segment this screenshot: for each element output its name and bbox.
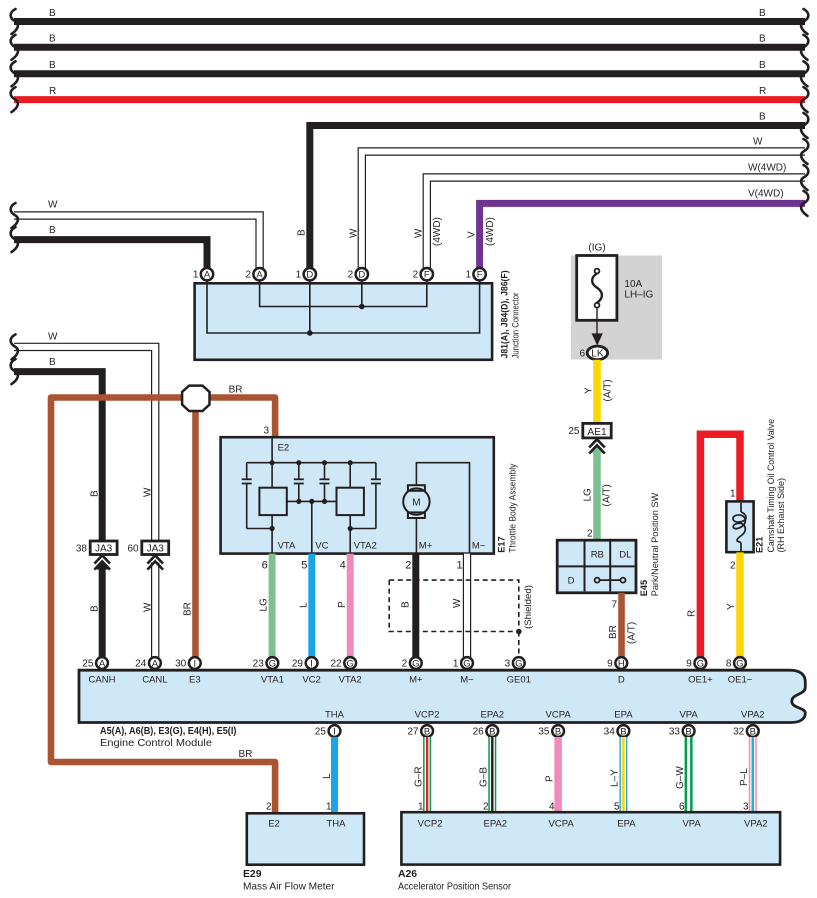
junction internal D2 drop bbox=[361, 279, 363, 307]
terminal 24 A ECM (CANL) bbox=[149, 657, 161, 669]
break symbol left B bbox=[11, 227, 18, 252]
junction node on upper bus bbox=[359, 304, 365, 310]
break symbol left R4 bbox=[11, 87, 18, 112]
svg-text:W: W bbox=[753, 137, 763, 148]
svg-text:B: B bbox=[489, 726, 495, 737]
svg-text:B: B bbox=[49, 60, 56, 71]
svg-text:JA3: JA3 bbox=[95, 543, 113, 554]
svg-text:E3: E3 bbox=[189, 674, 201, 685]
svg-text:V: V bbox=[467, 231, 478, 238]
wire L VC2 bbox=[308, 554, 315, 657]
svg-text:W: W bbox=[48, 332, 58, 343]
svg-text:8: 8 bbox=[726, 658, 732, 669]
svg-text:25: 25 bbox=[315, 726, 327, 737]
throttle sensor element 1 bbox=[259, 488, 286, 515]
svg-text:1: 1 bbox=[730, 489, 736, 500]
terminal 2 A junction connector bbox=[253, 268, 265, 280]
svg-text:I: I bbox=[310, 658, 313, 669]
terminal 9 G ECM (OE1+) bbox=[695, 657, 707, 669]
svg-text:G: G bbox=[515, 658, 522, 669]
svg-text:2: 2 bbox=[348, 270, 354, 281]
wire BR run to throttle body pin 3 bbox=[205, 398, 275, 438]
throttle bottom-left rail bbox=[247, 528, 272, 530]
svg-text:R: R bbox=[687, 610, 698, 617]
terminal 33 B ECM (VPA) bbox=[683, 725, 695, 737]
accelerator position sensor box A26 bbox=[401, 812, 780, 864]
wire shield drain dashed bbox=[518, 632, 520, 657]
svg-text:RB: RB bbox=[591, 549, 604, 560]
break symbol left B2 bbox=[11, 35, 18, 60]
svg-text:W: W bbox=[48, 200, 58, 211]
svg-text:B: B bbox=[49, 357, 56, 368]
terminal 25 I ECM (THA) bbox=[329, 725, 341, 737]
switch contact symbol bbox=[599, 579, 621, 581]
break symbol left W bbox=[11, 334, 18, 359]
svg-text:B: B bbox=[685, 726, 691, 737]
capacitor C3 bbox=[324, 463, 326, 479]
junction octagon connector bbox=[182, 386, 209, 411]
svg-text:A: A bbox=[152, 658, 159, 669]
mass air flow meter box E29 bbox=[247, 813, 364, 864]
svg-text:(Shielded): (Shielded) bbox=[523, 585, 534, 629]
svg-text:VTA2: VTA2 bbox=[339, 674, 362, 685]
svg-text:L: L bbox=[322, 773, 333, 779]
capacitor C4 bbox=[375, 463, 377, 479]
svg-text:B: B bbox=[49, 225, 56, 236]
svg-text:25: 25 bbox=[82, 658, 94, 669]
svg-text:CANH: CANH bbox=[89, 674, 116, 685]
svg-text:VCPA: VCPA bbox=[546, 710, 572, 721]
throttle bottom-right rail bbox=[350, 528, 376, 530]
wire R OE1+ to valve bbox=[700, 434, 740, 657]
svg-text:1: 1 bbox=[465, 270, 471, 281]
svg-text:27: 27 bbox=[407, 726, 419, 737]
svg-text:DL: DL bbox=[619, 549, 631, 560]
svg-text:B: B bbox=[750, 726, 756, 737]
chevron under 60 JA3 bbox=[147, 555, 163, 563]
svg-text:2: 2 bbox=[245, 270, 251, 281]
arrowhead to terminal LK bbox=[592, 333, 603, 345]
svg-text:EPA2: EPA2 bbox=[484, 819, 508, 830]
break symbol left B3 bbox=[11, 61, 18, 86]
svg-text:G–R: G–R bbox=[414, 766, 425, 787]
svg-text:D: D bbox=[618, 674, 625, 685]
break symbol left W bbox=[11, 203, 18, 228]
svg-text:VPA: VPA bbox=[682, 819, 701, 830]
svg-text:E2: E2 bbox=[278, 443, 290, 454]
svg-text:I: I bbox=[333, 726, 336, 737]
svg-text:2: 2 bbox=[402, 658, 408, 669]
svg-text:1: 1 bbox=[418, 802, 424, 813]
throttle sensor element 2 bbox=[337, 488, 364, 515]
svg-text:E45: E45 bbox=[639, 580, 649, 596]
svg-text:G–W: G–W bbox=[675, 766, 686, 789]
svg-text:2: 2 bbox=[405, 560, 411, 572]
svg-text:1: 1 bbox=[296, 270, 302, 281]
terminal 1 A junction connector bbox=[201, 268, 213, 280]
svg-text:7: 7 bbox=[611, 600, 617, 611]
svg-text:2: 2 bbox=[266, 802, 272, 813]
terminal 8 G ECM (OE1&#8722;) bbox=[734, 657, 746, 669]
svg-text:EPA: EPA bbox=[617, 819, 636, 830]
svg-text:W: W bbox=[452, 598, 463, 608]
terminal 32 B ECM (VPA2) bbox=[747, 725, 759, 737]
terminal 1 D junction connector bbox=[304, 268, 316, 280]
junction node VTA2 bbox=[348, 526, 353, 531]
terminal 1 F junction connector bbox=[473, 268, 485, 280]
svg-text:6: 6 bbox=[262, 560, 268, 572]
svg-text:6: 6 bbox=[579, 348, 585, 359]
svg-text:24: 24 bbox=[135, 658, 147, 669]
svg-text:22: 22 bbox=[330, 658, 342, 669]
junction node top rail bbox=[348, 460, 353, 465]
junction node top rail bbox=[322, 460, 327, 465]
svg-text:M+: M+ bbox=[419, 540, 433, 551]
svg-text:P–L: P–L bbox=[739, 768, 750, 786]
svg-text:G: G bbox=[347, 658, 354, 669]
svg-text:B: B bbox=[555, 726, 561, 737]
svg-text:VC: VC bbox=[315, 540, 328, 551]
wire G-R VCP2 bbox=[423, 737, 431, 813]
throttle middle rail bbox=[287, 500, 337, 502]
junction connector J81/J84/J86 box bbox=[195, 283, 493, 360]
wire bus R4 horizontal bbox=[14, 96, 805, 103]
wire G-W VPA bbox=[685, 737, 693, 813]
svg-text:B: B bbox=[90, 490, 101, 497]
break symbol right W(4WD) bbox=[801, 165, 808, 190]
svg-text:B: B bbox=[90, 605, 101, 612]
wire fuse output bbox=[596, 308, 598, 334]
svg-text:D: D bbox=[358, 270, 365, 281]
svg-text:B: B bbox=[49, 8, 56, 19]
break symbol right B2 bbox=[801, 35, 808, 60]
svg-text:34: 34 bbox=[604, 726, 616, 737]
valve coil bbox=[740, 503, 742, 512]
svg-text:(4WD): (4WD) bbox=[485, 217, 496, 246]
svg-text:B: B bbox=[424, 726, 430, 737]
svg-text:Accelerator Position Sensor: Accelerator Position Sensor bbox=[398, 881, 511, 892]
svg-text:R: R bbox=[759, 86, 766, 97]
svg-text:L: L bbox=[299, 602, 310, 608]
svg-text:G: G bbox=[412, 658, 419, 669]
svg-text:B: B bbox=[759, 60, 766, 71]
wire motor minus internal bbox=[416, 463, 469, 553]
svg-text:10A: 10A bbox=[624, 279, 642, 290]
svg-text:3: 3 bbox=[263, 426, 269, 437]
svg-text:E17: E17 bbox=[497, 536, 507, 552]
svg-text:THA: THA bbox=[327, 819, 347, 830]
wire P-L VPA2 bbox=[749, 737, 757, 813]
break symbol right R4 bbox=[801, 87, 808, 112]
svg-text:B: B bbox=[759, 8, 766, 19]
svg-text:LG: LG bbox=[583, 488, 594, 502]
svg-text:P: P bbox=[337, 601, 348, 608]
svg-text:1: 1 bbox=[326, 802, 332, 813]
wire bus B2 horizontal bbox=[14, 44, 805, 51]
svg-text:VC2: VC2 bbox=[302, 674, 320, 685]
svg-text:25: 25 bbox=[568, 426, 580, 437]
svg-text:1: 1 bbox=[456, 560, 462, 572]
svg-text:LK: LK bbox=[591, 349, 604, 360]
svg-text:VTA2: VTA2 bbox=[354, 540, 377, 551]
svg-text:VTA1: VTA1 bbox=[261, 674, 284, 685]
svg-text:5: 5 bbox=[614, 802, 620, 813]
switch grid lines bbox=[584, 542, 586, 592]
svg-text:Camshaft Timing Oil Control Va: Camshaft Timing Oil Control Valve bbox=[766, 419, 776, 553]
svg-text:38: 38 bbox=[76, 544, 88, 555]
terminal 29 I ECM (VC2) bbox=[306, 657, 318, 669]
svg-text:M−: M− bbox=[472, 540, 486, 551]
svg-text:OE1−: OE1− bbox=[728, 674, 753, 685]
junction internal upper bus bbox=[260, 279, 427, 307]
svg-text:2: 2 bbox=[730, 561, 736, 572]
break symbol left B1 bbox=[11, 9, 18, 34]
svg-text:(A/T): (A/T) bbox=[602, 484, 613, 506]
wire L THA bbox=[331, 737, 338, 814]
terminal 3 G ECM (GE01) bbox=[513, 657, 525, 669]
svg-text:26: 26 bbox=[473, 726, 485, 737]
terminal 22 G ECM (VTA2) bbox=[344, 657, 356, 669]
fuse 10A LH-IG box bbox=[577, 256, 617, 321]
chevron under 38 JA3 bbox=[94, 555, 110, 563]
svg-text:BR: BR bbox=[183, 602, 194, 616]
svg-text:G: G bbox=[697, 658, 704, 669]
svg-text:30: 30 bbox=[175, 658, 187, 669]
svg-text:9: 9 bbox=[686, 658, 692, 669]
terminal 35 B ECM (VCPA) bbox=[552, 725, 564, 737]
wire B to junction A1 bbox=[14, 240, 207, 268]
wire P VTA2 bbox=[347, 554, 354, 657]
svg-text:F: F bbox=[424, 270, 430, 281]
wire W M- bbox=[463, 554, 471, 657]
svg-text:Junction Connector: Junction Connector bbox=[511, 292, 521, 358]
shield box dashed bbox=[389, 580, 519, 631]
wire bus B3 horizontal bbox=[14, 70, 805, 77]
svg-text:3: 3 bbox=[743, 802, 749, 813]
wire B CANH lower bbox=[99, 567, 106, 658]
svg-text:D: D bbox=[568, 576, 575, 587]
svg-text:60: 60 bbox=[127, 544, 139, 555]
fuse block gray panel bbox=[571, 256, 662, 360]
junction node top rail bbox=[270, 460, 275, 465]
wire BR main run left bbox=[51, 398, 275, 814]
svg-text:(IG): (IG) bbox=[588, 243, 605, 254]
svg-text:H: H bbox=[618, 658, 625, 669]
junction node middle rail bbox=[322, 499, 327, 504]
terminal 25 A ECM (CANH) bbox=[96, 657, 108, 669]
terminal 1 G ECM (M&#8722;) bbox=[461, 657, 473, 669]
terminal 34 B ECM (EPA) bbox=[618, 725, 630, 737]
svg-text:E29: E29 bbox=[243, 869, 262, 880]
connector 38 JA3 box bbox=[90, 541, 117, 555]
wire B to junction D1 bbox=[310, 126, 805, 269]
svg-text:(RH Exhaust Side): (RH Exhaust Side) bbox=[776, 478, 786, 553]
svg-text:29: 29 bbox=[292, 658, 304, 669]
svg-text:BR: BR bbox=[608, 625, 619, 639]
svg-text:W: W bbox=[349, 228, 360, 238]
svg-text:23: 23 bbox=[253, 658, 265, 669]
junction internal D1 drop bbox=[309, 279, 311, 333]
wire G-B EPA2 bbox=[488, 737, 496, 813]
svg-text:AE1: AE1 bbox=[587, 427, 607, 438]
wire VC internal bbox=[311, 501, 313, 553]
svg-text:Y: Y bbox=[584, 387, 595, 394]
svg-text:CANL: CANL bbox=[142, 674, 167, 685]
fuse element bbox=[592, 273, 602, 302]
svg-text:J81(A), J84(D), J86(F): J81(A), J84(D), J86(F) bbox=[500, 270, 510, 358]
svg-text:F: F bbox=[477, 270, 483, 281]
svg-text:W: W bbox=[143, 487, 154, 497]
svg-text:P: P bbox=[545, 775, 556, 782]
wire motor plus internal bbox=[415, 518, 417, 553]
break symbol right W bbox=[801, 139, 808, 164]
svg-text:2: 2 bbox=[413, 270, 419, 281]
chevron under AE1 bbox=[589, 439, 605, 447]
terminal 30 I ECM (E3) bbox=[189, 657, 201, 669]
svg-text:W(4WD): W(4WD) bbox=[748, 163, 786, 174]
break symbol right B1 bbox=[801, 9, 808, 34]
throttle body assembly box bbox=[221, 437, 494, 553]
svg-text:VCPA: VCPA bbox=[549, 819, 575, 830]
svg-text:W: W bbox=[143, 602, 154, 612]
svg-text:3: 3 bbox=[505, 658, 511, 669]
break symbol right B3 bbox=[801, 61, 808, 86]
break symbol left B bbox=[11, 359, 18, 384]
svg-text:BR: BR bbox=[229, 385, 243, 396]
svg-text:R: R bbox=[49, 86, 56, 97]
break symbol right V(4WD) bbox=[801, 191, 808, 216]
capacitor C2 bbox=[298, 463, 300, 479]
svg-text:A: A bbox=[256, 270, 263, 281]
svg-text:G: G bbox=[736, 658, 743, 669]
terminal 2 G ECM (M+) bbox=[410, 657, 422, 669]
svg-text:D: D bbox=[306, 270, 313, 281]
svg-text:GE01: GE01 bbox=[507, 674, 531, 685]
svg-text:M−: M− bbox=[460, 674, 474, 685]
svg-text:VPA: VPA bbox=[679, 710, 698, 721]
motor M throttle bbox=[408, 485, 425, 491]
svg-text:VCP2: VCP2 bbox=[415, 710, 440, 721]
svg-text:W: W bbox=[414, 228, 425, 238]
terminal 27 B ECM (VCP2) bbox=[421, 725, 433, 737]
svg-text:G: G bbox=[269, 658, 276, 669]
svg-text:B: B bbox=[759, 112, 766, 123]
svg-text:32: 32 bbox=[733, 726, 745, 737]
svg-text:EPA2: EPA2 bbox=[481, 710, 505, 721]
wire W CANL upper bbox=[14, 347, 155, 542]
svg-text:35: 35 bbox=[538, 726, 550, 737]
terminal 9 H ECM (D) bbox=[615, 657, 627, 669]
wire BR drop to ECM E3 bbox=[192, 410, 199, 657]
terminal 26 B ECM (EPA2) bbox=[486, 725, 498, 737]
svg-text:Y: Y bbox=[726, 603, 737, 610]
svg-text:E2: E2 bbox=[268, 819, 280, 830]
svg-text:A: A bbox=[204, 270, 211, 281]
svg-text:L–Y: L–Y bbox=[610, 769, 621, 787]
svg-text:B: B bbox=[401, 601, 412, 608]
park/neutral position switch box bbox=[557, 540, 636, 593]
junction node middle rail bbox=[309, 499, 314, 504]
svg-text:(A/T): (A/T) bbox=[627, 622, 638, 644]
break symbol right B bbox=[801, 113, 808, 138]
terminal 2 F junction connector bbox=[421, 268, 433, 280]
junction node middle rail bbox=[296, 499, 301, 504]
wire B M+ bbox=[412, 554, 419, 657]
svg-text:5: 5 bbox=[301, 560, 307, 572]
svg-text:VCP2: VCP2 bbox=[418, 819, 443, 830]
svg-text:VPA2: VPA2 bbox=[741, 710, 765, 721]
wire W(4WD) to junction F2 bbox=[427, 178, 805, 269]
svg-text:Engine Control Module: Engine Control Module bbox=[100, 738, 212, 749]
svg-text:1: 1 bbox=[193, 270, 199, 281]
junction internal lower bus bbox=[207, 279, 480, 333]
junction node on lower bus bbox=[307, 330, 313, 336]
svg-text:B: B bbox=[620, 726, 626, 737]
wire BR (A/T) to ECM D bbox=[618, 593, 625, 657]
svg-text:OE1+: OE1+ bbox=[688, 674, 713, 685]
svg-text:9: 9 bbox=[607, 658, 613, 669]
oil control valve box E21 bbox=[726, 501, 753, 552]
svg-text:VPA2: VPA2 bbox=[744, 819, 768, 830]
svg-text:2: 2 bbox=[587, 529, 593, 540]
junction node top rail bbox=[296, 460, 301, 465]
wire L-Y EPA bbox=[619, 737, 627, 813]
svg-text:B: B bbox=[759, 34, 766, 45]
svg-text:1: 1 bbox=[453, 658, 459, 669]
wire Y valve to OE1- bbox=[736, 552, 744, 657]
svg-text:V(4WD): V(4WD) bbox=[748, 188, 784, 199]
throttle internal entry lead bbox=[271, 438, 273, 463]
wire W CANL lower bbox=[151, 563, 159, 658]
svg-text:G–B: G–B bbox=[479, 767, 490, 787]
node shield drain bbox=[516, 629, 522, 635]
svg-text:EPA: EPA bbox=[614, 710, 633, 721]
wire B CANH upper bbox=[14, 372, 102, 542]
svg-text:33: 33 bbox=[669, 726, 681, 737]
svg-text:B: B bbox=[297, 229, 308, 236]
svg-text:Park/Neutral Position SW: Park/Neutral Position SW bbox=[650, 493, 660, 597]
wire bus B1 horizontal bbox=[14, 18, 805, 25]
svg-text:Mass Air Flow Meter: Mass Air Flow Meter bbox=[243, 881, 335, 892]
svg-text:E21: E21 bbox=[755, 537, 765, 553]
svg-text:LH–IG: LH–IG bbox=[624, 290, 653, 301]
svg-text:B: B bbox=[49, 34, 56, 45]
svg-text:A: A bbox=[99, 658, 106, 669]
connector 25 AE1 box bbox=[583, 423, 611, 438]
svg-text:4: 4 bbox=[340, 560, 346, 572]
wire P VCPA bbox=[554, 737, 562, 813]
engine control module box bbox=[79, 670, 805, 722]
svg-text:(4WD): (4WD) bbox=[432, 217, 443, 246]
svg-text:A26: A26 bbox=[398, 869, 417, 880]
svg-text:G: G bbox=[463, 658, 470, 669]
svg-text:I: I bbox=[193, 658, 196, 669]
wire V(4WD) to junction F1 bbox=[480, 203, 805, 268]
svg-text:2: 2 bbox=[483, 802, 489, 813]
wire W to junction D2 bbox=[362, 152, 805, 269]
capacitor C1 bbox=[246, 463, 248, 479]
wire Y (A/T) bbox=[593, 360, 601, 424]
terminal 23 G ECM (VTA1) bbox=[267, 657, 279, 669]
svg-text:A5(A), A6(B), E3(G), E4(H), E5: A5(A), A6(B), E3(G), E4(H), E5(I) bbox=[100, 726, 236, 737]
throttle internal top rail bbox=[247, 462, 376, 464]
wire W to junction A2 bbox=[14, 216, 260, 269]
svg-text:4: 4 bbox=[549, 802, 555, 813]
svg-text:M+: M+ bbox=[409, 674, 423, 685]
terminal 2 D junction connector bbox=[356, 268, 368, 280]
svg-text:(A/T): (A/T) bbox=[603, 379, 614, 401]
svg-text:BR: BR bbox=[239, 749, 253, 760]
